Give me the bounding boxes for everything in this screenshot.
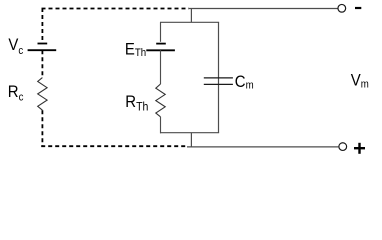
- label: plus sign: [354, 143, 365, 154]
- wire: bottom dashed rail (voltage-clamp boundary, bottom): [41, 145, 187, 147]
- wire: top solid rail to negative terminal: [189, 8, 338, 10]
- terminal: positive output (open circle): [339, 143, 347, 151]
- resistor Rc: [38, 78, 47, 111]
- wire: ETh branch top vertical: [160, 22, 162, 42]
- label Vc: [8, 36, 23, 57]
- label Vm: [351, 72, 369, 91]
- wire: left dashed vertical (Vc battery to Rc): [41, 50, 43, 77]
- wire: bottom stub (inner bottom wire to bottom rail): [190, 133, 192, 147]
- svg-text:RTh: RTh: [125, 93, 148, 113]
- wire: top stub (top rail to inner top wire): [190, 9, 192, 23]
- wire: bottom solid rail to positive terminal: [187, 146, 338, 148]
- capacitor Cm: [204, 78, 233, 85]
- label Cm: [235, 73, 254, 91]
- label RTh: [125, 93, 148, 113]
- wire: left dashed vertical (Rc to bottom rail): [41, 110, 43, 147]
- label Rc: [8, 83, 24, 103]
- svg-text:ETh: ETh: [125, 41, 146, 60]
- wire: RTh bottom vertical: [160, 117, 162, 134]
- svg-text:Cm: Cm: [235, 73, 254, 91]
- wire: left dashed vertical (top rail to Vc battery): [41, 8, 43, 42]
- wire: inner top wire (ETh branch to Cm branch): [160, 21, 219, 23]
- battery Vc: [28, 44, 57, 51]
- wire: top dashed rail (voltage-clamp boundary, top): [42, 8, 190, 10]
- terminal: negative output (open circle): [338, 4, 346, 12]
- wire: inner bottom wire (RTh branch to Cm branch): [160, 132, 219, 134]
- svg-text:Vc: Vc: [8, 36, 23, 57]
- label ETh: [125, 41, 146, 60]
- wire: ETh to RTh vertical: [160, 50, 162, 84]
- label: minus sign: [355, 7, 361, 9]
- battery ETh: [146, 44, 175, 51]
- resistor RTh: [156, 84, 165, 117]
- wire: Cm branch vertical: [218, 22, 220, 132]
- svg-text:Rc: Rc: [8, 83, 24, 103]
- svg-text:Vm: Vm: [351, 72, 369, 91]
